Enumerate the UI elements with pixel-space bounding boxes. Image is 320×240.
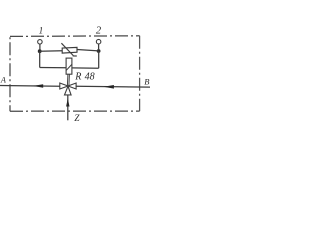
resistor R1 body (preset resistor) [62, 47, 77, 53]
valve left triangle [60, 83, 68, 89]
pipe A line [0, 85, 60, 88]
svg-text:48: 48 [85, 72, 95, 83]
resistor R1 preset diagonal [61, 43, 73, 55]
enclosure boundary left (dash-dot) [9, 36, 11, 111]
svg-text:2: 2 [96, 26, 102, 37]
wire lower left [40, 67, 66, 69]
wire lower right [72, 67, 99, 69]
pipe B line [76, 85, 150, 88]
enclosure boundary right (dash-dot) [139, 36, 141, 111]
actuator R 48 diagonal [66, 65, 71, 71]
node junction dot left [38, 49, 42, 53]
wire terminal 2 stem [98, 44, 100, 49]
svg-text:1: 1 [39, 27, 44, 37]
pipe Z line [67, 95, 69, 120]
wire top right [77, 50, 99, 51]
svg-text:B: B [144, 77, 149, 87]
actuator R 48 body [66, 58, 72, 74]
enclosure boundary top (dash-dot) [10, 35, 140, 38]
valve stem double line right [68, 74, 71, 86]
flow arrow toward A [33, 84, 43, 88]
valve bottom triangle [65, 86, 72, 95]
valve right triangle [68, 83, 76, 89]
wire terminal 1 stem [39, 44, 41, 49]
svg-text:A: A [0, 75, 7, 84]
wire left drop [39, 51, 41, 67]
flow arrow from B [104, 85, 114, 89]
enclosure boundary bottom (dash-dot) [10, 110, 140, 112]
svg-text:Z: Z [74, 113, 80, 123]
terminal 2 circle [96, 39, 101, 44]
flow arrow from Z [66, 98, 69, 106]
valve stem double line left [66, 74, 69, 86]
terminal 1 circle [38, 40, 43, 45]
wire right drop [98, 51, 100, 68]
resistor R1 preset T-bar [73, 55, 77, 57]
node junction dot right [97, 49, 101, 53]
wire top left [40, 50, 63, 53]
svg-text:R: R [74, 72, 81, 83]
